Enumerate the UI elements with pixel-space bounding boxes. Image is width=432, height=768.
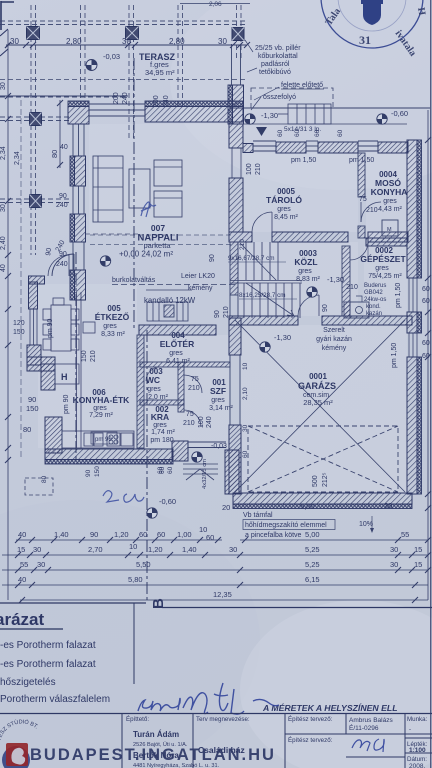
svg-text:hőhídmegszakító elemmel: hőhídmegszakító elemmel: [245, 522, 327, 529]
svg-text:240: 240: [163, 95, 170, 107]
tiny top edge dim 2,06: [180, 1, 250, 8]
annotation 10% slope: [359, 516, 374, 533]
svg-text:Építész tervező:: Építész tervező:: [288, 716, 333, 723]
room label KRA: [150, 405, 175, 444]
rotated 150 210 bay window: [81, 350, 97, 362]
eaves line right wing: [230, 107, 430, 109]
svg-text:M: M: [387, 227, 392, 233]
level mark garage: [260, 342, 270, 352]
left rotated dim labels: [0, 82, 21, 272]
level -1,30 rear: [261, 111, 278, 120]
level -0,03 entry: [211, 443, 227, 450]
dimension row 4: [2, 582, 428, 588]
svg-text:-0,03: -0,03: [211, 443, 227, 450]
chimney szerelt hatched: [344, 302, 350, 318]
svg-text:30: 30: [229, 545, 237, 554]
svg-text:TÁROLÓ: TÁROLÓ: [266, 194, 302, 205]
svg-text:-es Porotherm falazat: -es Porotherm falazat: [0, 659, 96, 670]
svg-text:GARÁZS: GARÁZS: [298, 381, 336, 391]
dimension 80 terrace edge: [50, 100, 63, 168]
window top right wing w1: [253, 141, 276, 151]
svg-text:60: 60: [159, 466, 166, 474]
svg-text:240: 240: [56, 202, 68, 209]
wall entry corner piece: [172, 441, 188, 461]
svg-text:1,40: 1,40: [182, 545, 197, 554]
bay window left 120/150: [30, 309, 37, 345]
annotation 25/25 vb pillér: [245, 40, 301, 60]
svg-text:10: 10: [242, 362, 249, 370]
svg-text:9x16,67/28,7 cm: 9x16,67/28,7 cm: [228, 255, 275, 262]
svg-text:5,25: 5,25: [305, 560, 320, 569]
svg-text:30: 30: [242, 424, 249, 432]
svg-text:gres: gres: [93, 405, 107, 412]
svg-text:2,10: 2,10: [242, 387, 249, 400]
bay dashed footprint: [25, 478, 53, 495]
annotation padlásról tetőkibúvó: [247, 61, 291, 76]
labels 60 rotated window jambs: [277, 129, 344, 137]
table vertical dividers: [122, 713, 432, 768]
svg-text:75/4,25 m²: 75/4,25 m²: [368, 273, 402, 280]
svg-text:20: 20: [222, 503, 230, 512]
room label ELŐTÉR: [160, 331, 194, 365]
svg-text:5,50: 5,50: [136, 560, 151, 569]
wall közl left vertical: [230, 242, 238, 295]
svg-text:60: 60: [422, 286, 430, 293]
wall right outer mid: [407, 312, 422, 333]
wall house bottom: [45, 449, 173, 464]
svg-text:90: 90: [85, 469, 92, 477]
rotated pm 90 bay: [47, 318, 54, 338]
svg-text:Építtető:: Építtető:: [126, 716, 149, 723]
svg-text:210: 210: [223, 306, 230, 318]
stair label 8x: [239, 292, 297, 299]
svg-text:Vb támfal: Vb támfal: [243, 512, 273, 519]
svg-text:40: 40: [60, 144, 68, 151]
svg-text:padlásról: padlásról: [261, 61, 290, 68]
svg-text:12,35: 12,35: [213, 590, 232, 599]
hall closet H box: [55, 364, 79, 384]
svg-text:150: 150: [13, 329, 25, 336]
svg-text:KONYHA: KONYHA: [371, 187, 408, 197]
bay wall top strip: [29, 276, 45, 284]
door kra arc: [184, 410, 201, 427]
wall elötér közl divider: [139, 325, 216, 335]
svg-text:gres: gres: [277, 206, 291, 213]
kitchen label pm 90 box: [91, 432, 117, 444]
svg-text:-0,60: -0,60: [159, 497, 176, 506]
svg-text:500: 500: [312, 475, 319, 487]
wall wc szf vertical: [178, 362, 184, 412]
svg-text:210: 210: [90, 350, 97, 362]
room label SZF: [209, 378, 233, 412]
svg-text:20: 20: [384, 501, 392, 510]
wall kitchen left: [45, 417, 62, 453]
handwritten 2k blue: [103, 491, 144, 503]
window left wall 1: [73, 124, 84, 156]
wall gépészet közl vertical: [342, 246, 350, 316]
svg-text:2,34: 2,34: [14, 151, 21, 165]
staircase flight lower treads: [244, 283, 300, 318]
svg-text:40: 40: [0, 264, 7, 272]
svg-text:60: 60: [242, 450, 249, 458]
dimension row 1 right: [240, 537, 431, 543]
svg-text:ÉTKEZŐ: ÉTKEZŐ: [95, 311, 130, 322]
svg-text:É/11-0296: É/11-0296: [349, 723, 379, 732]
stair label 9x: [228, 255, 286, 262]
svg-text:10%: 10%: [359, 521, 373, 528]
svg-text:1,40: 1,40: [54, 530, 69, 539]
svg-text:2,40: 2,40: [0, 236, 7, 250]
rear entry door 100/210: [232, 148, 241, 178]
svg-text:55: 55: [20, 560, 28, 569]
svg-text:Porotherm válaszfalelem: Porotherm válaszfalelem: [0, 694, 110, 705]
top dimension labels: [10, 37, 227, 46]
svg-text:8,33 m²: 8,33 m²: [101, 331, 125, 338]
svg-text:210: 210: [183, 420, 195, 427]
svg-text:2,0 m²: 2,0 m²: [148, 394, 169, 401]
wall garage bottom: [233, 493, 412, 509]
svg-text:90: 90: [322, 304, 329, 312]
wall taroló mosó divider: [358, 153, 365, 238]
svg-text:2,80: 2,80: [169, 37, 185, 46]
svg-text:30: 30: [390, 545, 398, 554]
window top right wing w3: [358, 141, 378, 151]
svg-text:75: 75: [186, 411, 194, 418]
wall mosó gépészet divider: [366, 238, 407, 246]
table cell építész tervező 2: [288, 737, 333, 744]
svg-text:kémény: kémény: [322, 345, 347, 352]
wall right outer lower: [407, 357, 422, 494]
legend heading árazat: [0, 610, 63, 629]
annotation szerelt kémény: [316, 327, 352, 352]
svg-text:kandalló 12kW: kandalló 12kW: [144, 296, 196, 305]
dashed axis through nappali: [90, 235, 232, 245]
dimension row 3 labels: [20, 560, 422, 569]
annotation felette előtető: [254, 82, 324, 100]
svg-text:80: 80: [23, 425, 31, 434]
window left wall 2: [73, 186, 84, 214]
svg-text:3,14 m²: 3,14 m²: [209, 405, 233, 412]
drain triangle marker: [256, 127, 267, 136]
svg-text:90: 90: [28, 395, 36, 404]
level mark étkező: [100, 256, 110, 266]
sofa nappali: [93, 156, 123, 222]
door taroló közl arc: [252, 212, 272, 232]
svg-text:kond.: kond.: [366, 304, 381, 310]
svg-text:hőszigetelés: hőszigetelés: [0, 677, 56, 688]
annotation összefolyó: [251, 94, 296, 110]
svg-text:1:100: 1:100: [409, 747, 426, 754]
svg-text:-1,30: -1,30: [274, 333, 291, 342]
svg-text:60: 60: [167, 466, 174, 474]
entry steps szf: [183, 464, 218, 480]
right wall window labels 60 60 pm150 lower: [391, 340, 430, 368]
svg-text:2008.: 2008.: [409, 763, 425, 768]
rotated pm 90 hall: [63, 394, 70, 414]
window labels 90 240 left: [56, 144, 68, 268]
svg-text:30: 30: [0, 204, 7, 212]
level label -0,03 terrace: [103, 52, 120, 61]
door taroló mosó 75/210: [361, 202, 381, 222]
rotated dims 100 240 szf: [198, 416, 213, 428]
svg-text:8,45 m²: 8,45 m²: [274, 214, 298, 221]
svg-text:240: 240: [56, 261, 68, 268]
left secondary dashed line: [20, 100, 22, 460]
svg-text:60: 60: [422, 340, 430, 347]
door közl west opening: [230, 295, 238, 316]
section marker B bottom: [150, 598, 167, 609]
svg-text:1,20: 1,20: [148, 545, 163, 554]
signature handwriting blue: [138, 683, 279, 714]
bay wall step vertical: [41, 364, 55, 390]
column 25/25 top row 2: [126, 27, 139, 40]
left dim line: [5, 30, 11, 600]
svg-text:SZF: SZF: [210, 386, 226, 396]
window top right wing w2: [306, 141, 318, 151]
svg-text:2,70: 2,70: [88, 545, 103, 554]
svg-text:60: 60: [337, 129, 344, 137]
room label TERASZ: [139, 52, 176, 77]
staircase walk diagonals: [240, 243, 294, 316]
exterior steps rear entry: [278, 104, 331, 124]
svg-text:200: 200: [113, 92, 120, 104]
svg-text:150: 150: [26, 404, 39, 413]
wall top right wing segment d: [378, 142, 408, 153]
rotated labels 200 240 nappali axis: [113, 92, 170, 107]
svg-text:90: 90: [59, 193, 67, 200]
svg-text:gres: gres: [383, 198, 397, 205]
svg-text:34,95 m²: 34,95 m²: [145, 68, 175, 77]
title block top border: [0, 603, 432, 684]
svg-text:Építész tervező:: Építész tervező:: [288, 737, 333, 744]
svg-text:Szerelt: Szerelt: [323, 327, 345, 334]
svg-text:200: 200: [153, 95, 160, 107]
wall top right wing segment a: [243, 144, 253, 153]
room label GÉPÉSZET: [346, 246, 406, 291]
svg-text:30: 30: [218, 37, 227, 46]
svg-text:120: 120: [13, 320, 25, 327]
svg-text:28,35 m²: 28,35 m²: [303, 398, 333, 407]
labels 90 240 bay door: [45, 239, 67, 256]
coffee table nappali: [129, 169, 150, 208]
table cell munka: [407, 716, 428, 768]
dimension row 1 labels: [18, 525, 214, 542]
dimension row 5 label 12,35: [213, 590, 232, 599]
svg-text:tetőkibúvó: tetőkibúvó: [259, 69, 291, 76]
svg-text:pm 180: pm 180: [150, 437, 173, 444]
bay wall left upper: [29, 282, 38, 309]
room label TÁROLÓ: [266, 187, 302, 221]
svg-text:30: 30: [10, 37, 19, 46]
svg-text:kémény: kémény: [188, 285, 213, 292]
svg-text:Munka:: Munka:: [407, 716, 428, 723]
legend row 2: [0, 659, 96, 670]
garage parking dashed rect: [248, 426, 398, 492]
svg-text:KÖZL: KÖZL: [294, 257, 317, 267]
room label KONYHA-ÉTK: [73, 388, 131, 419]
wall gépészet közl divider right part: [368, 232, 408, 242]
rotated 90 közl garage door: [322, 304, 329, 312]
svg-text:24kw-os: 24kw-os: [364, 297, 386, 303]
labels pm 1,50 windows: [291, 157, 374, 164]
svg-text:KRA: KRA: [151, 412, 169, 422]
labels 100 210 rear door: [246, 163, 262, 175]
rotated label 4x32/15 cm: [202, 459, 208, 489]
rotated 90 210 közl door: [214, 306, 230, 318]
svg-text:2,34: 2,34: [0, 146, 7, 160]
svg-text:pm 90: pm 90: [63, 394, 70, 414]
logo építész stúdió: [0, 718, 44, 768]
garage rotated dims 500 212: [312, 472, 329, 487]
terrace paving edge line: [0, 80, 247, 97]
wall left lower segment: [70, 270, 86, 300]
table cell építtető: [126, 716, 220, 768]
svg-text:2,80: 2,80: [66, 37, 82, 46]
right dim line: [425, 110, 431, 600]
svg-text:5,25: 5,25: [305, 545, 320, 554]
svg-text:gres: gres: [375, 265, 389, 272]
svg-text:-1,30: -1,30: [261, 111, 278, 120]
terrace axis grid dashed lines: [0, 5, 247, 255]
svg-text:75: 75: [191, 376, 199, 383]
blue pen mark nappali: [141, 202, 156, 217]
room label WC: [146, 367, 169, 401]
svg-text:összefolyó: összefolyó: [263, 94, 296, 101]
wall wc top horizontal: [140, 362, 230, 367]
svg-text:gyári kazán: gyári kazán: [316, 336, 352, 343]
svg-text:5,00: 5,00: [305, 530, 320, 539]
svg-text:Dátum:: Dátum:: [407, 756, 427, 763]
svg-text:210: 210: [188, 385, 200, 392]
window right wall 2: [409, 333, 417, 357]
wall interior kitchen elöter vertical: [137, 335, 144, 448]
dimension row 1 left: [15, 537, 222, 543]
svg-text:felette előtető: felette előtető: [281, 82, 323, 89]
svg-text:BUDAPEST.INGATLAN.HU: BUDAPEST.INGATLAN.HU: [30, 746, 276, 764]
wall garage left hatched: [229, 425, 241, 494]
table signature 2 blue: [352, 739, 384, 752]
note a méretek: [262, 703, 398, 713]
svg-text:210: 210: [239, 239, 246, 250]
svg-text:-es Porotherm falazat: -es Porotherm falazat: [0, 640, 96, 651]
svg-text:-0,03: -0,03: [103, 52, 120, 61]
door elötér szf 75/210 arc: [184, 375, 202, 393]
door labels 75 210 kra: [183, 411, 195, 427]
svg-text:GÉPÉSZET: GÉPÉSZET: [360, 254, 406, 264]
svg-text:Leier LK20: Leier LK20: [181, 273, 215, 280]
level mark terrace: [86, 60, 97, 71]
svg-text:kazán: kazán: [366, 311, 382, 317]
legend row 1: [0, 640, 96, 651]
svg-text:pm 1,50: pm 1,50: [391, 343, 398, 368]
rotated labels below kitchen wall: [41, 466, 174, 483]
svg-text:31: 31: [359, 33, 371, 47]
svg-text:pm 90: pm 90: [95, 437, 112, 443]
svg-text:8,83 m²: 8,83 m²: [296, 276, 320, 283]
level mark közl: [307, 287, 317, 297]
svg-text:240: 240: [122, 92, 129, 104]
room label GARÁZS: [298, 372, 336, 407]
svg-text:7,29 m²: 7,29 m²: [89, 412, 113, 419]
level mark rear left: [245, 114, 255, 124]
door közl garage arc: [298, 295, 319, 316]
svg-text:30: 30: [37, 560, 45, 569]
inner wall face étkező konyha: [77, 292, 96, 448]
svg-text:4,43 m²: 4,43 m²: [378, 206, 402, 213]
svg-text:240: 240: [206, 416, 213, 428]
svg-text:60: 60: [157, 530, 165, 539]
wall szf garage divider: [229, 318, 241, 355]
svg-text:6,15: 6,15: [305, 575, 320, 584]
svg-text:5x14/31 3 lp.: 5x14/31 3 lp.: [284, 126, 321, 133]
stamp circle seal: [321, 0, 427, 58]
dining table étkezö: [43, 298, 79, 351]
annotation Vb támfal: [243, 512, 335, 539]
wall közl garage divider: [229, 316, 412, 325]
wall top right wing segment b: [276, 142, 306, 153]
garage cross diagonals: [235, 320, 405, 492]
dimension row 4 labels: [18, 575, 320, 584]
dimension row 3: [2, 567, 431, 573]
svg-text:8x16,25/28,7 cm: 8x16,25/28,7 cm: [239, 292, 286, 299]
section line B vertical: [76, 58, 147, 600]
table top line: [0, 713, 432, 715]
wall rear entry vertical: [228, 44, 244, 124]
svg-text:40: 40: [18, 575, 26, 584]
svg-text:Buderus: Buderus: [364, 283, 386, 289]
svg-text:6,41 m²: 6,41 m²: [166, 358, 190, 365]
svg-text:A MÉRETEK A HELYSZÍNEN ELL: A MÉRETEK A HELYSZÍNEN ELL: [262, 703, 398, 713]
annotation burkolatváltás: [112, 277, 238, 285]
svg-text:80: 80: [41, 475, 48, 483]
wall right outer upper: [407, 140, 422, 278]
annotation Leier LK20 kémény: [181, 273, 215, 292]
bay window dim labels 120 150: [13, 320, 25, 336]
top dimension line: [6, 44, 247, 46]
svg-text:150: 150: [81, 350, 88, 362]
room label ÉTKEZŐ: [95, 304, 130, 338]
svg-text:arázat: arázat: [0, 610, 44, 629]
boiler gépészet: [350, 296, 369, 318]
armchairs nappali: [154, 160, 182, 217]
door left wall 90/240 with swing arc: [52, 242, 84, 276]
right wall window labels 60 60 pm150 upper: [395, 283, 430, 308]
dimension row 2: [2, 552, 431, 558]
level -1,30 közl: [327, 275, 344, 284]
wall left mid segment: [70, 214, 86, 242]
washer M mosó: [382, 220, 398, 236]
svg-text:30: 30: [0, 82, 7, 90]
door garage side opening: [230, 355, 240, 425]
svg-text:40: 40: [18, 530, 26, 539]
column left wall mid 2: [30, 195, 42, 208]
room interior light fills: [38, 124, 407, 493]
svg-text:90: 90: [214, 310, 221, 318]
window nappali top 90/240: [89, 104, 145, 116]
svg-text:100: 100: [246, 163, 253, 175]
table cell terv megnevezése: [196, 716, 250, 755]
svg-text:kőburkolattal: kőburkolattal: [258, 53, 298, 60]
svg-text:gres: gres: [169, 350, 183, 357]
wall nappali top: [145, 101, 243, 122]
svg-text:25/25 vb. pillér: 25/25 vb. pillér: [255, 45, 301, 52]
svg-text:-0,60: -0,60: [391, 109, 408, 118]
svg-text:Ambrus Balázs: Ambrus Balázs: [349, 717, 393, 724]
svg-text:90: 90: [209, 254, 216, 262]
level mark rear right: [377, 114, 387, 124]
svg-text:150: 150: [94, 466, 101, 477]
kitchen counter: [62, 431, 134, 448]
